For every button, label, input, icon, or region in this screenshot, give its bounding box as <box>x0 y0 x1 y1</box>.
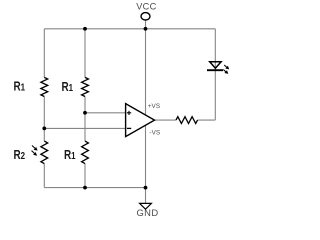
svg-text:R1: R1 <box>62 80 74 94</box>
op-amp minus input mark <box>127 127 131 129</box>
wire middle branch middle segment <box>84 97 86 142</box>
wire left branch lower segment <box>43 164 45 188</box>
svg-text:+VS: +VS <box>148 103 161 110</box>
LED light arrow 2 <box>223 70 228 74</box>
node junction dot bottom rail at middle branch <box>83 186 87 190</box>
LED light arrow 1 <box>224 65 229 69</box>
wire right LED branch <box>214 29 216 120</box>
svg-text:R1: R1 <box>64 148 76 162</box>
resistor R1 top-middle <box>82 77 89 96</box>
node junction dot top rail at VCC <box>144 27 148 31</box>
wire op-amp output right lead <box>198 119 216 121</box>
svg-text:-VS: -VS <box>149 130 160 137</box>
wire op-amp -VS pin to GND <box>145 125 147 203</box>
svg-text:GND: GND <box>136 207 158 218</box>
resistor output zigzag horizontal <box>176 117 198 124</box>
VCC terminal circle <box>141 13 150 20</box>
wire non-inverting input <box>85 112 126 114</box>
wire middle branch lower segment <box>84 164 86 188</box>
wire top rail VCC <box>44 28 215 30</box>
op-amp U1 triangle <box>126 104 155 137</box>
wire left branch upper segment <box>43 29 45 78</box>
wire op-amp output left lead <box>155 119 177 121</box>
node junction dot top rail at middle branch <box>83 27 87 31</box>
svg-text:VCC: VCC <box>136 1 156 11</box>
node junction dot non-inverting tap <box>83 111 87 115</box>
ground symbol <box>140 203 152 209</box>
wire VCC terminal to rail <box>145 20 147 29</box>
node junction dot bottom rail at GND <box>144 186 148 190</box>
svg-text:R1: R1 <box>14 80 26 94</box>
photoresistor R2 light arrow 2 <box>32 151 38 156</box>
LED D1 cathode bar <box>207 69 223 71</box>
op-amp plus input mark <box>127 111 131 115</box>
wire bottom rail <box>44 187 145 189</box>
wire left branch middle segment <box>43 97 45 142</box>
wire rail to op-amp +VS pin <box>145 29 147 115</box>
photoresistor R2 light arrow 1 <box>32 146 38 151</box>
photoresistor R2 bottom-left <box>41 141 48 164</box>
wire inverting input <box>44 127 125 129</box>
node junction dot inverting tap <box>42 126 46 130</box>
resistor R1 top-left <box>41 77 48 96</box>
svg-text:R2: R2 <box>14 148 26 162</box>
resistor R1 bottom-middle <box>82 141 89 164</box>
wire middle branch upper segment <box>84 29 86 78</box>
LED D1 triangle <box>210 62 221 68</box>
